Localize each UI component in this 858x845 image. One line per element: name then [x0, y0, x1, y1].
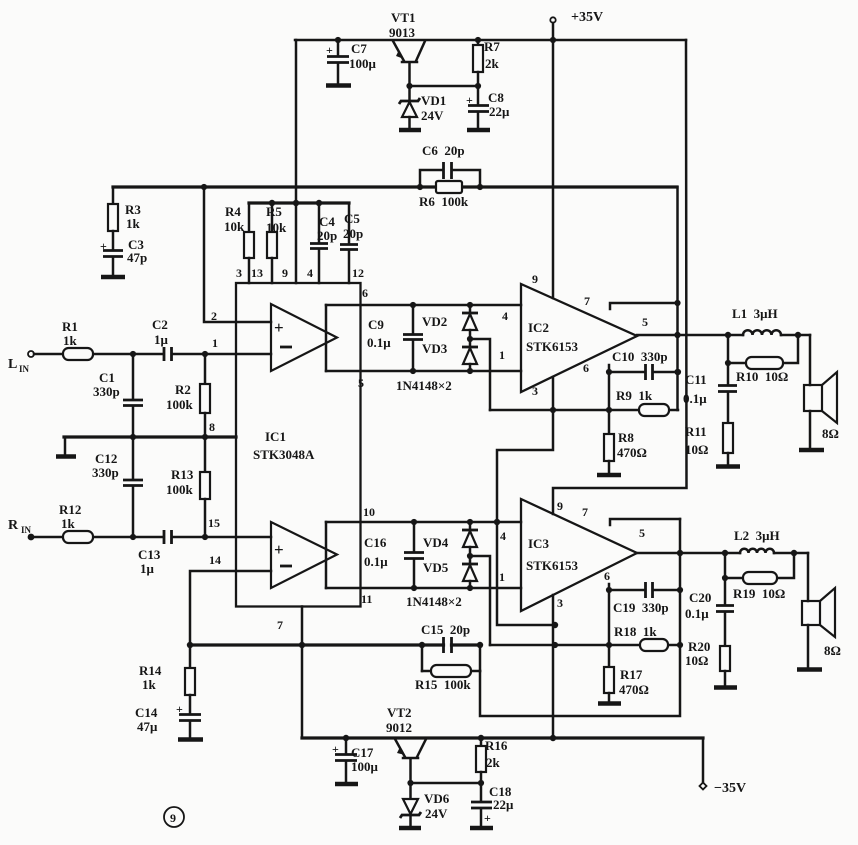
svg-text:15: 15 [208, 516, 220, 530]
svg-text:C10 330p: C10 330p [612, 349, 668, 364]
svg-text:C11: C11 [685, 372, 707, 387]
wire IC2 pin9 supply stub [532, 40, 553, 298]
svg-text:11: 11 [361, 592, 372, 606]
svg-text:1k: 1k [61, 516, 76, 531]
svg-text:STK6153: STK6153 [526, 558, 579, 573]
ground below R20 [714, 685, 737, 690]
resistor R17 [604, 590, 649, 702]
capacitor C16 [364, 522, 424, 588]
svg-text:5: 5 [642, 315, 648, 329]
svg-text:9: 9 [557, 499, 563, 513]
svg-text:4: 4 [307, 266, 313, 280]
svg-text:1k: 1k [126, 216, 141, 231]
svg-text:R12: R12 [59, 502, 81, 517]
svg-text:7: 7 [277, 618, 283, 632]
svg-text:2k: 2k [485, 56, 500, 71]
svg-text:C15 20p: C15 20p [421, 622, 470, 637]
resistor R14 [139, 645, 195, 714]
svg-text:VD4: VD4 [423, 535, 449, 550]
svg-text:100μ: 100μ [349, 56, 377, 71]
capacitor C3 [100, 237, 147, 276]
speaker ch2 [802, 553, 841, 668]
svg-text:STK3048A: STK3048A [253, 447, 315, 462]
svg-text:STK6153: STK6153 [526, 339, 579, 354]
svg-text:R5: R5 [266, 204, 282, 219]
resistor R1 [62, 319, 93, 360]
svg-text:L2 3μH: L2 3μH [734, 528, 780, 543]
svg-text:R16: R16 [485, 738, 508, 753]
svg-text:IC3: IC3 [528, 536, 549, 551]
transistor VT1 9013 [389, 10, 425, 86]
resistor R3 [108, 187, 141, 249]
svg-text:330p: 330p [92, 465, 119, 480]
wire VT2 base node [407, 780, 484, 786]
capacitor C18 [471, 783, 514, 827]
diode VD4 [423, 522, 478, 556]
wire +35V right drop to IC3 pin9 [553, 40, 687, 514]
svg-text:3: 3 [236, 266, 242, 280]
svg-text:+: + [484, 811, 491, 825]
ground below C18 [470, 826, 493, 831]
svg-text:VT2: VT2 [387, 705, 412, 720]
svg-text:3: 3 [557, 596, 563, 610]
zener VD1 24V [399, 86, 446, 129]
svg-text:6: 6 [583, 361, 589, 375]
svg-text:9: 9 [532, 272, 538, 286]
svg-text:R3: R3 [125, 202, 141, 217]
svg-text:1k: 1k [142, 677, 157, 692]
node +35V terminal [550, 10, 603, 40]
svg-text:VD6: VD6 [424, 791, 450, 806]
svg-text:0.1μ: 0.1μ [367, 335, 391, 350]
svg-text:+35V: +35V [571, 10, 603, 25]
svg-text:1μ: 1μ [140, 561, 155, 576]
capacitor C1 [93, 354, 143, 437]
capacitor C19 [604, 569, 683, 615]
svg-text:R11: R11 [685, 424, 707, 439]
svg-text:9: 9 [282, 266, 288, 280]
svg-text:R1: R1 [62, 319, 78, 334]
wire ch2 coupling top pin10 pin4 [326, 505, 521, 588]
svg-text:9012: 9012 [386, 720, 412, 735]
capacitor C6 [420, 143, 480, 187]
ground signal input [56, 437, 76, 457]
ground below R8 [597, 473, 621, 478]
ground below C7 [326, 83, 351, 88]
svg-text:14: 14 [209, 553, 221, 567]
zener VD6 24V [400, 783, 450, 827]
svg-text:R20: R20 [688, 639, 710, 654]
capacitor C12 [92, 437, 143, 537]
svg-text:C1: C1 [99, 370, 115, 385]
wire input summing line [113, 184, 677, 190]
svg-text:5: 5 [639, 526, 645, 540]
capacitor C13 [138, 530, 172, 576]
svg-text:13: 13 [251, 266, 263, 280]
resistor R6 [419, 181, 469, 209]
resistor R2 [166, 354, 210, 437]
svg-text:R10 10Ω: R10 10Ω [736, 369, 788, 384]
svg-text:R17: R17 [620, 667, 643, 682]
svg-text:22μ: 22μ [493, 797, 514, 812]
svg-text:C19 330p: C19 330p [613, 600, 669, 615]
resistor R19 [722, 553, 794, 601]
ground below VD1 [399, 128, 421, 133]
wire pin8 mid line [64, 420, 236, 440]
resistor R5 [266, 203, 287, 283]
ground below speaker ch2 [797, 667, 822, 672]
inductor L1 [732, 306, 781, 335]
resistor R7 [473, 39, 500, 86]
svg-text:4: 4 [502, 309, 508, 323]
wire R8 R9 bias line ch1 [490, 407, 678, 413]
svg-text:R: R [8, 518, 19, 533]
wire VT1 base node [406, 83, 481, 89]
svg-text:9: 9 [170, 811, 176, 825]
svg-text:47μ: 47μ [137, 719, 158, 734]
svg-text:8Ω: 8Ω [822, 426, 839, 441]
svg-text:+: + [274, 540, 284, 559]
resistor R9 [616, 388, 669, 416]
node L input terminal [8, 351, 34, 374]
svg-text:5: 5 [358, 376, 364, 390]
svg-text:VD3: VD3 [422, 341, 448, 356]
op-amp IC1 box STK3048A [236, 283, 361, 607]
svg-text:10Ω: 10Ω [685, 442, 708, 457]
resistor R12 [59, 502, 93, 543]
svg-text:24V: 24V [421, 108, 444, 123]
wire IC3 pin3 stub [553, 595, 563, 738]
op-amp IC1 upper triangle [271, 304, 337, 371]
wire R17 R18 bias line ch2 [490, 642, 683, 648]
svg-text:VD1: VD1 [421, 93, 446, 108]
node R input terminal [8, 518, 34, 540]
svg-text:100k: 100k [166, 482, 194, 497]
wire feedback line ch2 [187, 642, 483, 648]
svg-text:IC2: IC2 [528, 320, 549, 335]
ground below C14 [178, 737, 203, 742]
svg-text:10k: 10k [266, 220, 287, 235]
ground below C3 [101, 275, 125, 280]
wire diode midpoint ch1 [467, 336, 490, 410]
wire IC2 output pin5 [637, 315, 810, 338]
svg-text:L1 3μH: L1 3μH [732, 306, 778, 321]
resistor R16 [476, 738, 508, 783]
svg-text:C14: C14 [135, 705, 158, 720]
svg-text:+: + [274, 318, 284, 337]
resistor R15 [415, 645, 480, 692]
svg-text:24V: 24V [425, 806, 448, 821]
svg-text:+: + [466, 93, 473, 107]
ground below VD6 [399, 826, 421, 831]
svg-text:C6 20p: C6 20p [422, 143, 465, 158]
inductor L2 [734, 528, 780, 553]
resistor R8 [604, 372, 647, 474]
svg-text:R9 1k: R9 1k [616, 388, 653, 403]
wire pin9 feed from rail [295, 40, 298, 283]
svg-text:8Ω: 8Ω [824, 643, 841, 658]
ground below R17 [598, 701, 621, 706]
wire diode midpoint ch2 [467, 553, 490, 645]
svg-text:0.1μ: 0.1μ [683, 391, 707, 406]
svg-text:C9: C9 [368, 317, 384, 332]
svg-text:+: + [326, 43, 333, 57]
svg-text:C4: C4 [319, 214, 335, 229]
capacitor C15 [421, 622, 470, 653]
capacitor C5 [340, 203, 363, 283]
svg-text:1N4148×2: 1N4148×2 [406, 594, 462, 609]
svg-text:IN: IN [21, 525, 32, 535]
svg-text:R8: R8 [618, 430, 634, 445]
resistor R4 [224, 203, 254, 283]
wire -35V bottom rail [302, 735, 703, 741]
capacitor C17 [332, 738, 379, 783]
svg-text:6: 6 [362, 286, 368, 300]
svg-text:100k: 100k [166, 397, 194, 412]
svg-text:1μ: 1μ [154, 332, 169, 347]
svg-text:R19 10Ω: R19 10Ω [733, 586, 785, 601]
svg-text:C8: C8 [488, 90, 504, 105]
transistor VT2 9012 [386, 705, 426, 783]
capacitor C9 [367, 305, 423, 371]
svg-text:10: 10 [363, 505, 375, 519]
svg-text:1: 1 [499, 570, 505, 584]
svg-text:C2: C2 [152, 317, 168, 332]
wire IC3 pin7 [582, 505, 680, 525]
wire +35V top rail [295, 37, 686, 43]
wire IC2 pin3 stub and jog [494, 377, 558, 628]
ground below R11 [716, 464, 740, 469]
svg-text:3: 3 [532, 384, 538, 398]
svg-text:2k: 2k [486, 755, 501, 770]
svg-text:1k: 1k [63, 333, 78, 348]
wire R input line pin15 [31, 516, 271, 540]
svg-text:C17: C17 [351, 745, 374, 760]
svg-text:6: 6 [604, 569, 610, 583]
svg-text:1: 1 [499, 348, 505, 362]
diode VD3 [422, 339, 478, 371]
svg-text:47p: 47p [127, 250, 147, 265]
svg-text:9013: 9013 [389, 25, 416, 40]
svg-text:8: 8 [209, 420, 215, 434]
capacitor C2 [152, 317, 172, 361]
svg-text:R7: R7 [484, 39, 500, 54]
svg-text:10k: 10k [224, 219, 245, 234]
svg-text:−35V: −35V [714, 781, 746, 796]
power-amp IC3 STK6153 [521, 499, 637, 611]
capacitor C11 [683, 363, 737, 423]
svg-text:R6 100k: R6 100k [419, 194, 469, 209]
wire IC2 pin7 [584, 294, 678, 309]
wire ch1 coupling top pin6 pin4 [326, 286, 521, 371]
svg-text:22μ: 22μ [489, 104, 510, 119]
svg-text:VD2: VD2 [422, 314, 447, 329]
svg-text:R2: R2 [175, 382, 191, 397]
resistor R20 [685, 639, 730, 686]
capacitor C20 [685, 578, 734, 646]
svg-text:7: 7 [584, 294, 590, 308]
svg-text:R18 1k: R18 1k [614, 624, 657, 639]
svg-text:12: 12 [352, 266, 364, 280]
ground below C17 [335, 782, 358, 787]
svg-text:C5: C5 [344, 211, 360, 226]
wire IC3 output pin5 [637, 526, 808, 556]
svg-text:0.1μ: 0.1μ [685, 606, 709, 621]
svg-text:C12: C12 [95, 451, 117, 466]
wire L input line pin1 [34, 351, 271, 357]
capacitor C7 [326, 40, 377, 84]
svg-text:+: + [100, 239, 107, 253]
speaker ch1 [804, 335, 839, 449]
svg-text:L: L [8, 357, 17, 372]
svg-text:R13: R13 [171, 467, 194, 482]
svg-text:100μ: 100μ [351, 759, 379, 774]
svg-text:C20: C20 [689, 590, 711, 605]
node -35V terminal [700, 738, 747, 796]
wire feedback vertical ch2 [480, 519, 683, 716]
resistor R10 [725, 335, 798, 384]
resistor R18 [614, 624, 668, 651]
svg-text:C7: C7 [351, 41, 367, 56]
diode VD5 [423, 556, 478, 588]
svg-text:10Ω: 10Ω [685, 653, 708, 668]
svg-text:1: 1 [212, 336, 218, 350]
capacitor C14 [135, 702, 201, 738]
wire bias bus [249, 200, 349, 206]
pin 2 wire [204, 187, 271, 323]
op-amp IC1 lower triangle [271, 522, 337, 588]
svg-text:IC1: IC1 [265, 429, 286, 444]
resistor R11 [685, 423, 733, 465]
svg-text:20p: 20p [317, 228, 337, 243]
node figure number 9 [164, 807, 184, 827]
svg-text:1N4148×2: 1N4148×2 [396, 378, 452, 393]
wire feedback vertical ch1 [674, 187, 680, 410]
svg-text:C16: C16 [364, 535, 387, 550]
ground below speaker ch1 [799, 448, 824, 453]
capacitor C10 [583, 349, 681, 380]
capacitor C4 [310, 203, 337, 283]
diode VD2 [422, 305, 478, 339]
wire IC1 pin7 stub [277, 607, 305, 739]
svg-text:R15 100k: R15 100k [415, 677, 471, 692]
svg-text:470Ω: 470Ω [617, 445, 647, 460]
svg-text:470Ω: 470Ω [619, 682, 649, 697]
svg-text:VT1: VT1 [391, 10, 416, 25]
capacitor C8 [466, 86, 510, 129]
svg-text:20p: 20p [343, 226, 363, 241]
wire ch2 coupling bottom pin11 pin1 [326, 570, 521, 606]
svg-text:0.1μ: 0.1μ [364, 554, 388, 569]
svg-text:330p: 330p [93, 384, 120, 399]
wire pin14 [190, 553, 271, 645]
svg-text:4: 4 [500, 529, 506, 543]
svg-text:2: 2 [211, 309, 217, 323]
svg-text:7: 7 [582, 505, 588, 519]
svg-text:R14: R14 [139, 663, 162, 678]
svg-text:R4: R4 [225, 204, 241, 219]
svg-text:+: + [332, 742, 339, 756]
ground below C8 [467, 128, 490, 133]
svg-text:IN: IN [19, 364, 30, 374]
svg-text:C13: C13 [138, 547, 161, 562]
wire ch1 coupling bottom pin5 pin1 [326, 348, 521, 390]
power-amp IC2 STK6153 [521, 284, 637, 392]
resistor R13 [166, 437, 210, 537]
svg-text:VD5: VD5 [423, 560, 449, 575]
svg-text:+: + [176, 702, 183, 716]
